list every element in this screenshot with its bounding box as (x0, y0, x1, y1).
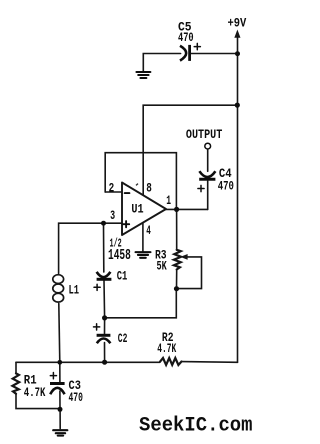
svg-text:+9V: +9V (228, 15, 247, 30)
svg-text:5K: 5K (157, 259, 167, 274)
svg-text:4: 4 (146, 223, 151, 238)
svg-text:470: 470 (69, 390, 83, 405)
svg-text:4.7K: 4.7K (24, 385, 46, 400)
svg-text:SeekIC.com: SeekIC.com (139, 415, 253, 438)
svg-text:470: 470 (218, 179, 234, 194)
svg-text:8: 8 (146, 181, 152, 196)
svg-text:470: 470 (178, 30, 194, 45)
svg-text:1458: 1458 (108, 248, 131, 264)
svg-text:L1: L1 (69, 282, 80, 297)
svg-text:U1: U1 (131, 202, 143, 217)
svg-text:4.7K: 4.7K (157, 341, 176, 356)
svg-text:2: 2 (109, 180, 115, 195)
svg-text:3: 3 (110, 208, 115, 223)
svg-text:OUTPUT: OUTPUT (186, 127, 223, 142)
svg-text:C1: C1 (117, 268, 128, 283)
svg-text:1: 1 (166, 193, 171, 208)
svg-text:C2: C2 (118, 331, 128, 346)
